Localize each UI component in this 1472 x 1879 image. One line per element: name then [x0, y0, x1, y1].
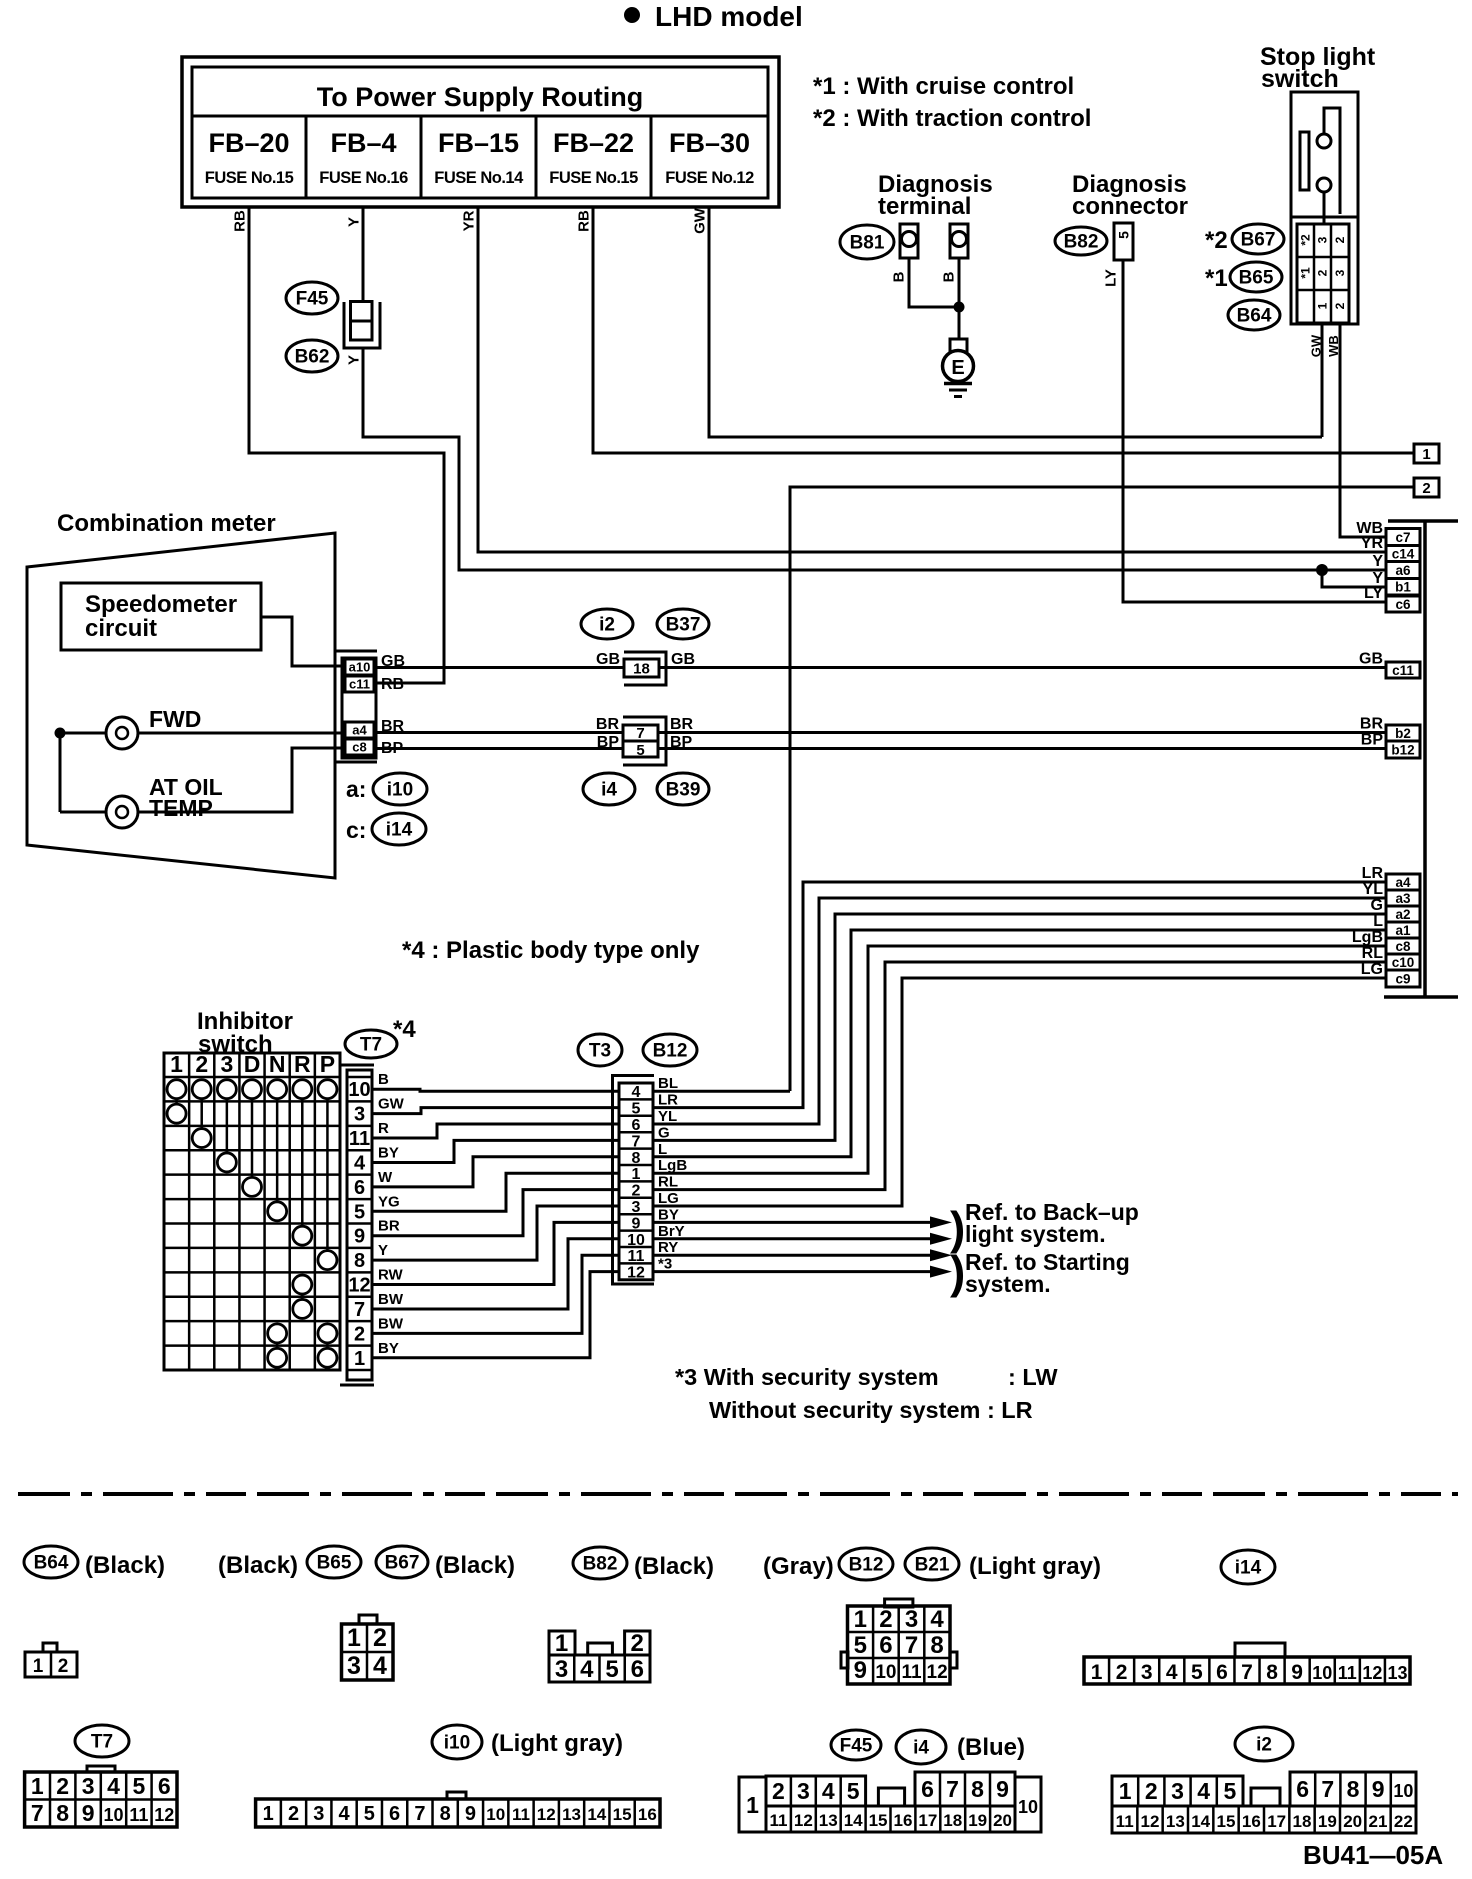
svg-text:i10: i10	[387, 780, 413, 801]
svg-text:16: 16	[638, 1805, 657, 1824]
svg-text:FUSE No.15: FUSE No.15	[549, 169, 638, 187]
connector B64 pinout	[43, 1643, 57, 1652]
connector i10 pinout	[447, 1792, 466, 1799]
connector B67 oval	[376, 1546, 428, 1578]
connector F45 oval	[286, 282, 338, 314]
svg-text:10: 10	[627, 1232, 645, 1249]
svg-text:i2: i2	[599, 615, 615, 636]
wire R T7 pin 11 to T3 pin	[372, 1124, 620, 1138]
wire BrY to ref arrow	[654, 1237, 930, 1240]
connector 18 body	[624, 652, 666, 685]
fuse cell FB–20	[305, 116, 308, 198]
wire B from terminal 2	[958, 258, 961, 339]
svg-text:LR: LR	[1362, 865, 1384, 882]
fuse cell FB–22	[650, 116, 653, 198]
wire LgB B12 to main connector	[654, 946, 1386, 1173]
svg-text:a6: a6	[1395, 563, 1411, 578]
svg-text:a3: a3	[1395, 891, 1411, 906]
svg-text:8: 8	[1347, 1776, 1360, 1802]
svg-text:2: 2	[288, 1803, 299, 1825]
fuse cell FB–4	[420, 116, 423, 198]
connector B65 oval	[1230, 262, 1282, 292]
connector B65/B67 pinout	[359, 1615, 377, 1624]
svg-text:system.: system.	[965, 1271, 1051, 1297]
svg-text:FUSE No.15: FUSE No.15	[205, 169, 294, 187]
svg-text:12: 12	[1362, 1663, 1382, 1683]
wire GW T7 pin 3 to T3 pin	[372, 1108, 620, 1114]
svg-text:4: 4	[930, 1606, 944, 1633]
svg-text:B39: B39	[666, 780, 701, 801]
svg-text:switch: switch	[1261, 65, 1339, 93]
svg-text:2: 2	[1422, 480, 1430, 497]
svg-text:c6: c6	[1395, 597, 1411, 612]
svg-text:22: 22	[1394, 1812, 1413, 1831]
pin c11 of main connector	[1386, 662, 1420, 678]
svg-text:YG: YG	[378, 1193, 400, 1210]
svg-text:17: 17	[918, 1811, 937, 1830]
pin c9 of main connector	[1386, 970, 1420, 987]
svg-text:BU41—05A: BU41—05A	[1303, 1840, 1443, 1870]
svg-text:17: 17	[1267, 1812, 1286, 1831]
svg-text:3: 3	[1171, 1778, 1184, 1804]
connector i10 oval	[432, 1725, 482, 1759]
svg-text:To Power Supply Routing: To Power Supply Routing	[317, 82, 643, 112]
connector i14 pinout	[1235, 1643, 1285, 1657]
svg-text:4: 4	[632, 1084, 641, 1101]
connector B82 pinout	[549, 1631, 575, 1655]
svg-text:10: 10	[103, 1805, 123, 1825]
svg-text:7: 7	[636, 725, 644, 742]
svg-text:5: 5	[354, 1201, 365, 1223]
wire YR from FB-15	[478, 207, 1386, 552]
connector B65 oval	[307, 1546, 361, 1578]
svg-text:1: 1	[33, 1656, 44, 1677]
svg-text:4: 4	[373, 1652, 387, 1680]
svg-text:15: 15	[869, 1811, 888, 1830]
inhibitor switch grid	[164, 1053, 340, 1370]
connector B82 oval	[573, 1547, 627, 1579]
svg-text:13: 13	[1166, 1812, 1185, 1831]
wire Y T7 pin 8 to T3 pin	[372, 1206, 620, 1260]
svg-text:BL: BL	[658, 1075, 678, 1092]
svg-text:Y: Y	[346, 355, 363, 365]
svg-text:3: 3	[797, 1778, 810, 1804]
svg-text:c9: c9	[1395, 971, 1410, 986]
svg-text:B: B	[891, 271, 908, 282]
svg-text:5: 5	[133, 1773, 146, 1799]
svg-text:(Light gray): (Light gray)	[969, 1553, 1101, 1580]
wire Y from link to a6 pin	[363, 348, 1386, 570]
connector B21 oval	[905, 1548, 959, 1580]
main harness connector body	[1388, 519, 1458, 523]
svg-text:*2: *2	[1205, 227, 1228, 254]
svg-text:FB–30: FB–30	[669, 128, 750, 158]
svg-text:8: 8	[1266, 1661, 1278, 1684]
svg-text:1: 1	[347, 1624, 361, 1652]
svg-text:W: W	[378, 1169, 393, 1186]
svg-text:19: 19	[1318, 1812, 1337, 1831]
svg-text:BY: BY	[378, 1144, 399, 1161]
svg-text:7: 7	[632, 1133, 641, 1150]
diagnosis terminal pin 1	[900, 224, 918, 258]
svg-text:*3 With security system: *3 With security system	[675, 1364, 939, 1390]
wire to page connector 2	[790, 487, 1414, 1091]
svg-text:FUSE No.14: FUSE No.14	[434, 169, 524, 187]
svg-text:5: 5	[1116, 231, 1132, 239]
svg-text:21: 21	[1369, 1812, 1388, 1831]
svg-text:T7: T7	[360, 1035, 382, 1056]
svg-text:7: 7	[905, 1632, 918, 1659]
svg-text:12: 12	[154, 1805, 174, 1825]
svg-text:FUSE No.16: FUSE No.16	[319, 169, 408, 187]
svg-text:1: 1	[746, 1792, 759, 1818]
svg-text:RL: RL	[1362, 945, 1384, 962]
lamp FWD	[106, 717, 138, 749]
wire RB from FB-20	[249, 207, 444, 683]
pin c8 of main connector	[1386, 938, 1420, 954]
svg-text:b12: b12	[1391, 742, 1414, 757]
stop light connector grid	[1297, 224, 1349, 323]
wire BW T7 pin 2 to T3 pin	[372, 1255, 620, 1333]
power supply routing box	[182, 57, 779, 207]
svg-text:c11: c11	[349, 677, 370, 692]
svg-text:1: 1	[354, 1348, 365, 1370]
svg-text:20: 20	[1343, 1812, 1362, 1831]
diagnosis connector pin 5	[1114, 223, 1133, 260]
separator line	[18, 1492, 1458, 1496]
svg-text:c7: c7	[1395, 530, 1410, 545]
svg-text:12: 12	[794, 1811, 813, 1830]
svg-text:BY: BY	[658, 1206, 679, 1223]
svg-text:b1: b1	[1395, 580, 1411, 595]
svg-text:c10: c10	[1392, 955, 1415, 970]
svg-text:(Light gray): (Light gray)	[491, 1730, 623, 1757]
wire YG T7 pin 5 to T3 pin	[372, 1173, 620, 1211]
svg-text:14: 14	[587, 1805, 606, 1824]
svg-text:1: 1	[1316, 302, 1330, 309]
svg-text:6: 6	[1296, 1776, 1309, 1802]
svg-text:2: 2	[58, 1656, 69, 1677]
wire LG B12 to main connector	[654, 978, 1386, 1206]
svg-text:9: 9	[996, 1776, 1009, 1802]
svg-text:3: 3	[347, 1652, 361, 1680]
svg-text:LgB: LgB	[658, 1157, 687, 1174]
svg-text:7: 7	[946, 1776, 959, 1802]
svg-text:B64: B64	[1237, 306, 1272, 327]
svg-text:13: 13	[1387, 1663, 1407, 1683]
svg-text:terminal: terminal	[878, 193, 971, 220]
svg-text:12: 12	[537, 1805, 556, 1824]
svg-text:(Black): (Black)	[85, 1552, 165, 1579]
svg-text:B: B	[941, 271, 958, 282]
svg-text:14: 14	[844, 1811, 863, 1830]
connector i2 oval	[581, 609, 633, 639]
wire Y branch to b1	[1322, 570, 1386, 587]
svg-text:YL: YL	[1363, 881, 1384, 898]
wire RL B12 to main connector	[654, 962, 1386, 1190]
svg-text:16: 16	[1242, 1812, 1261, 1831]
connector F45/i4 pinout	[739, 1777, 766, 1832]
pin b2 of main connector	[1386, 725, 1420, 741]
wire FWD lamp	[60, 732, 342, 735]
svg-text:9: 9	[354, 1226, 365, 1248]
svg-text:3: 3	[313, 1803, 324, 1825]
svg-text:B82: B82	[1064, 232, 1099, 253]
title bullet	[624, 7, 640, 23]
svg-text:5: 5	[632, 1101, 641, 1118]
svg-text:2: 2	[195, 1051, 208, 1077]
connector B81 oval	[840, 225, 894, 259]
svg-text:c:: c:	[346, 817, 366, 843]
svg-text:GB: GB	[596, 651, 620, 668]
pin a4 of main connector	[1386, 874, 1420, 890]
svg-text:B12: B12	[849, 1555, 884, 1576]
svg-text:LHD model: LHD model	[655, 1, 803, 32]
connector 7/5 body	[623, 717, 666, 765]
svg-text:2: 2	[373, 1624, 387, 1652]
svg-text:5: 5	[1191, 1661, 1203, 1684]
wire BW T7 pin 7 to T3 pin	[372, 1239, 620, 1309]
svg-text:BP: BP	[1361, 732, 1384, 749]
svg-text:2: 2	[772, 1778, 785, 1804]
switch contact bar	[1300, 132, 1309, 190]
wire BY T7 pin 1 to T3 pin	[372, 1272, 620, 1358]
svg-text:6: 6	[631, 1656, 644, 1683]
svg-text:LY: LY	[1103, 269, 1120, 287]
inhibitor contact circles	[167, 1080, 186, 1099]
svg-text:R: R	[294, 1051, 311, 1077]
svg-text:10: 10	[1393, 1781, 1413, 1801]
svg-text:*2 : With traction control: *2 : With traction control	[813, 105, 1091, 132]
svg-text:LG: LG	[1361, 961, 1383, 978]
svg-text:13: 13	[562, 1805, 581, 1824]
svg-text:LY: LY	[1364, 585, 1383, 602]
svg-text:a10: a10	[349, 660, 371, 675]
svg-text:BY: BY	[378, 1340, 399, 1357]
wire RW T7 pin 12 to T3 pin	[372, 1222, 620, 1284]
svg-text:2: 2	[1333, 302, 1347, 309]
svg-text:2: 2	[354, 1323, 365, 1345]
wire GB a10 to c11	[377, 666, 1386, 669]
connector B37 oval	[657, 609, 709, 639]
svg-text:N: N	[269, 1051, 286, 1077]
svg-text:1: 1	[1091, 1661, 1103, 1684]
svg-text:RW: RW	[378, 1267, 404, 1284]
stop light switch body	[1291, 92, 1358, 217]
wire L B12 to main connector	[654, 930, 1386, 1157]
svg-text:GW: GW	[692, 207, 709, 234]
svg-text:B65: B65	[317, 1553, 352, 1574]
connector T3 oval	[578, 1034, 622, 1066]
svg-text:i4: i4	[913, 1738, 929, 1759]
svg-text:a:: a:	[346, 776, 366, 802]
svg-text:: LW: : LW	[1008, 1364, 1058, 1390]
svg-text:11: 11	[512, 1805, 530, 1824]
wire G B12 to main connector	[654, 914, 1386, 1140]
pin a2 of main connector	[1386, 906, 1420, 922]
svg-text:a4: a4	[1395, 875, 1411, 890]
wire GW from FB-30	[709, 207, 1322, 437]
svg-text:G: G	[1371, 897, 1383, 914]
svg-text:9: 9	[1372, 1776, 1385, 1802]
svg-text:B21: B21	[915, 1555, 950, 1576]
svg-text:(Gray): (Gray)	[763, 1553, 834, 1580]
svg-text:YL: YL	[658, 1108, 677, 1125]
svg-text:8: 8	[632, 1150, 641, 1167]
svg-text:LG: LG	[658, 1190, 679, 1207]
svg-text:8: 8	[930, 1632, 943, 1659]
svg-text:9: 9	[854, 1657, 867, 1684]
connector i4 oval	[583, 773, 635, 805]
meter connector block	[334, 650, 377, 653]
svg-text:11: 11	[628, 1248, 645, 1265]
svg-text:*2: *2	[1299, 234, 1313, 246]
svg-text:B12: B12	[653, 1041, 688, 1062]
svg-text:(Blue): (Blue)	[957, 1734, 1025, 1761]
svg-text:3: 3	[1333, 269, 1347, 276]
svg-text:*4: *4	[393, 1016, 416, 1043]
svg-text:6: 6	[389, 1803, 400, 1825]
svg-text:2: 2	[1333, 236, 1347, 243]
svg-text:1: 1	[170, 1051, 183, 1077]
svg-text:GB: GB	[671, 651, 695, 668]
svg-text:B62: B62	[295, 347, 330, 368]
wire W T7 pin 6 to T3 pin	[372, 1157, 620, 1187]
svg-text:4: 4	[339, 1803, 351, 1825]
svg-text:RL: RL	[658, 1174, 678, 1191]
wire BP c8 to b12	[377, 747, 1386, 750]
svg-text:Y: Y	[378, 1242, 388, 1259]
svg-text:12: 12	[927, 1662, 948, 1683]
svg-text:2: 2	[879, 1606, 892, 1633]
pin c11	[345, 676, 374, 692]
svg-text:): )	[950, 1246, 965, 1298]
svg-text:*4 : Plastic body type only: *4 : Plastic body type only	[402, 937, 700, 964]
svg-text:*1 : With cruise control: *1 : With cruise control	[813, 73, 1074, 100]
page connector 1	[1414, 444, 1439, 463]
wire LR B12 to main connector	[654, 882, 1386, 1108]
svg-text:YR: YR	[461, 210, 478, 231]
connector F45 oval	[831, 1730, 881, 1760]
inhibitor contact stems	[175, 1099, 178, 1104]
inhibitor connector T7 column	[340, 1064, 374, 1067]
connector i14 oval	[1221, 1550, 1275, 1584]
svg-text:20: 20	[993, 1811, 1012, 1830]
pin c14 of main connector	[1386, 546, 1420, 562]
pin c8	[345, 739, 374, 755]
svg-text:*3: *3	[658, 1256, 672, 1273]
svg-text:a4: a4	[352, 723, 367, 738]
svg-text:c14: c14	[1392, 546, 1415, 561]
svg-text:9: 9	[632, 1215, 641, 1232]
wire to AT OIL TEMP lamp	[59, 733, 62, 812]
svg-text:L: L	[658, 1141, 667, 1158]
svg-text:11: 11	[769, 1811, 787, 1830]
svg-text:c11: c11	[1392, 663, 1414, 678]
svg-text:8: 8	[440, 1803, 451, 1825]
connector B67 oval	[1232, 224, 1284, 254]
svg-text:BP: BP	[670, 734, 693, 751]
svg-text:9: 9	[465, 1803, 476, 1825]
svg-text:4: 4	[822, 1778, 835, 1804]
svg-text:8: 8	[56, 1800, 69, 1826]
svg-text:1: 1	[1119, 1778, 1132, 1804]
pin c10 of main connector	[1386, 954, 1420, 970]
svg-text:2: 2	[56, 1773, 69, 1799]
svg-text:7: 7	[1241, 1661, 1253, 1684]
svg-text:B64: B64	[34, 1553, 69, 1574]
svg-text:BrY: BrY	[658, 1223, 685, 1240]
wire BY T7 pin 4 to T3 pin	[372, 1140, 620, 1162]
connector B12 oval	[839, 1548, 893, 1580]
svg-text:connector: connector	[1072, 193, 1188, 220]
switch internal wire	[1324, 108, 1340, 214]
svg-text:GW: GW	[378, 1096, 405, 1113]
pin a4	[345, 722, 374, 738]
svg-text:Without security system : LR: Without security system : LR	[709, 1397, 1033, 1423]
svg-text:6: 6	[158, 1773, 171, 1799]
connector i4 oval	[896, 1730, 946, 1764]
svg-text:BW: BW	[378, 1291, 404, 1308]
page connector 2	[1414, 478, 1439, 497]
connector B39 oval	[657, 773, 709, 805]
svg-text:5: 5	[364, 1803, 375, 1825]
svg-text:4: 4	[580, 1656, 594, 1683]
svg-text:B: B	[378, 1071, 389, 1088]
svg-text:5: 5	[636, 742, 644, 759]
pin b12 of main connector	[1386, 741, 1420, 758]
svg-text:LR: LR	[658, 1092, 678, 1109]
fuse cell FB–15	[535, 116, 538, 198]
svg-text:(Black): (Black)	[435, 1552, 515, 1579]
connector i2 pinout	[1112, 1776, 1243, 1806]
svg-text:T3: T3	[589, 1041, 611, 1062]
svg-text:R: R	[378, 1120, 389, 1137]
svg-text:12: 12	[1141, 1812, 1160, 1831]
svg-text:BR: BR	[1360, 716, 1384, 733]
svg-text:*1: *1	[1205, 265, 1228, 292]
wire BR a4 to b2	[377, 731, 1386, 734]
pin a1 of main connector	[1386, 922, 1420, 938]
svg-text:FB–20: FB–20	[208, 128, 289, 158]
svg-text:RB: RB	[381, 676, 404, 693]
svg-text:11: 11	[129, 1805, 148, 1825]
svg-text:2: 2	[1145, 1778, 1158, 1804]
svg-text:3: 3	[220, 1051, 233, 1077]
svg-text:18: 18	[943, 1811, 962, 1830]
svg-text:3: 3	[555, 1656, 568, 1683]
svg-text:9: 9	[82, 1800, 95, 1826]
svg-text:15: 15	[613, 1805, 632, 1824]
svg-text:Speedometer: Speedometer	[85, 591, 237, 618]
svg-text:P: P	[320, 1051, 335, 1077]
wire RY to ref arrow	[654, 1254, 930, 1257]
svg-text:B37: B37	[666, 615, 701, 636]
svg-text:c8: c8	[1395, 939, 1411, 954]
svg-text:8: 8	[354, 1250, 365, 1272]
svg-text:(Black): (Black)	[218, 1552, 298, 1579]
svg-text:10: 10	[875, 1662, 896, 1683]
wire WB from stop light switch to c7	[1340, 323, 1386, 537]
connector B62 oval	[286, 340, 338, 372]
svg-text:D: D	[244, 1051, 261, 1077]
svg-text:7: 7	[1321, 1776, 1334, 1802]
pin a10	[345, 659, 374, 675]
svg-text:i2: i2	[1256, 1735, 1272, 1756]
svg-text:7: 7	[31, 1800, 44, 1826]
connector B64 oval	[1228, 300, 1280, 330]
connector T7 oval	[75, 1725, 129, 1757]
